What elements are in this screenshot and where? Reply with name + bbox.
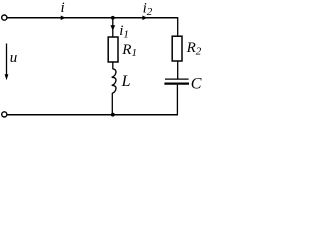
svg-text:u: u (10, 50, 17, 66)
arrow u head (5, 74, 9, 80)
wire bottom rail (7, 114, 178, 116)
capacitor C bottom plate (164, 82, 189, 84)
arrow u (voltage) line (6, 44, 8, 76)
wire top rail (7, 17, 178, 19)
arrow i1 head (110, 25, 115, 30)
svg-text:R2: R2 (186, 40, 202, 57)
svg-text:i2: i2 (143, 1, 153, 18)
resistor R2 (172, 36, 182, 61)
inductor L (112, 69, 116, 93)
wire R1 to L (112, 62, 114, 69)
wire C to bottom rail (176, 85, 178, 115)
wire R2 to C (177, 61, 179, 79)
svg-text:R1: R1 (121, 42, 137, 59)
capacitor C top plate (165, 78, 189, 80)
svg-text:i: i (61, 0, 65, 16)
svg-text:C: C (191, 76, 202, 93)
terminal bottom-left (2, 112, 7, 117)
svg-text:i1: i1 (119, 23, 129, 40)
wire right branch top (177, 17, 179, 36)
node junction top (111, 16, 115, 20)
arrow i2 head (142, 16, 147, 21)
node junction bottom (111, 113, 115, 117)
wire L to bottom rail (111, 93, 113, 115)
resistor R1 (108, 37, 118, 62)
terminal top-left (2, 15, 7, 20)
wire middle branch upper (112, 18, 114, 37)
svg-text:L: L (121, 73, 131, 90)
arrow i head (61, 16, 66, 21)
